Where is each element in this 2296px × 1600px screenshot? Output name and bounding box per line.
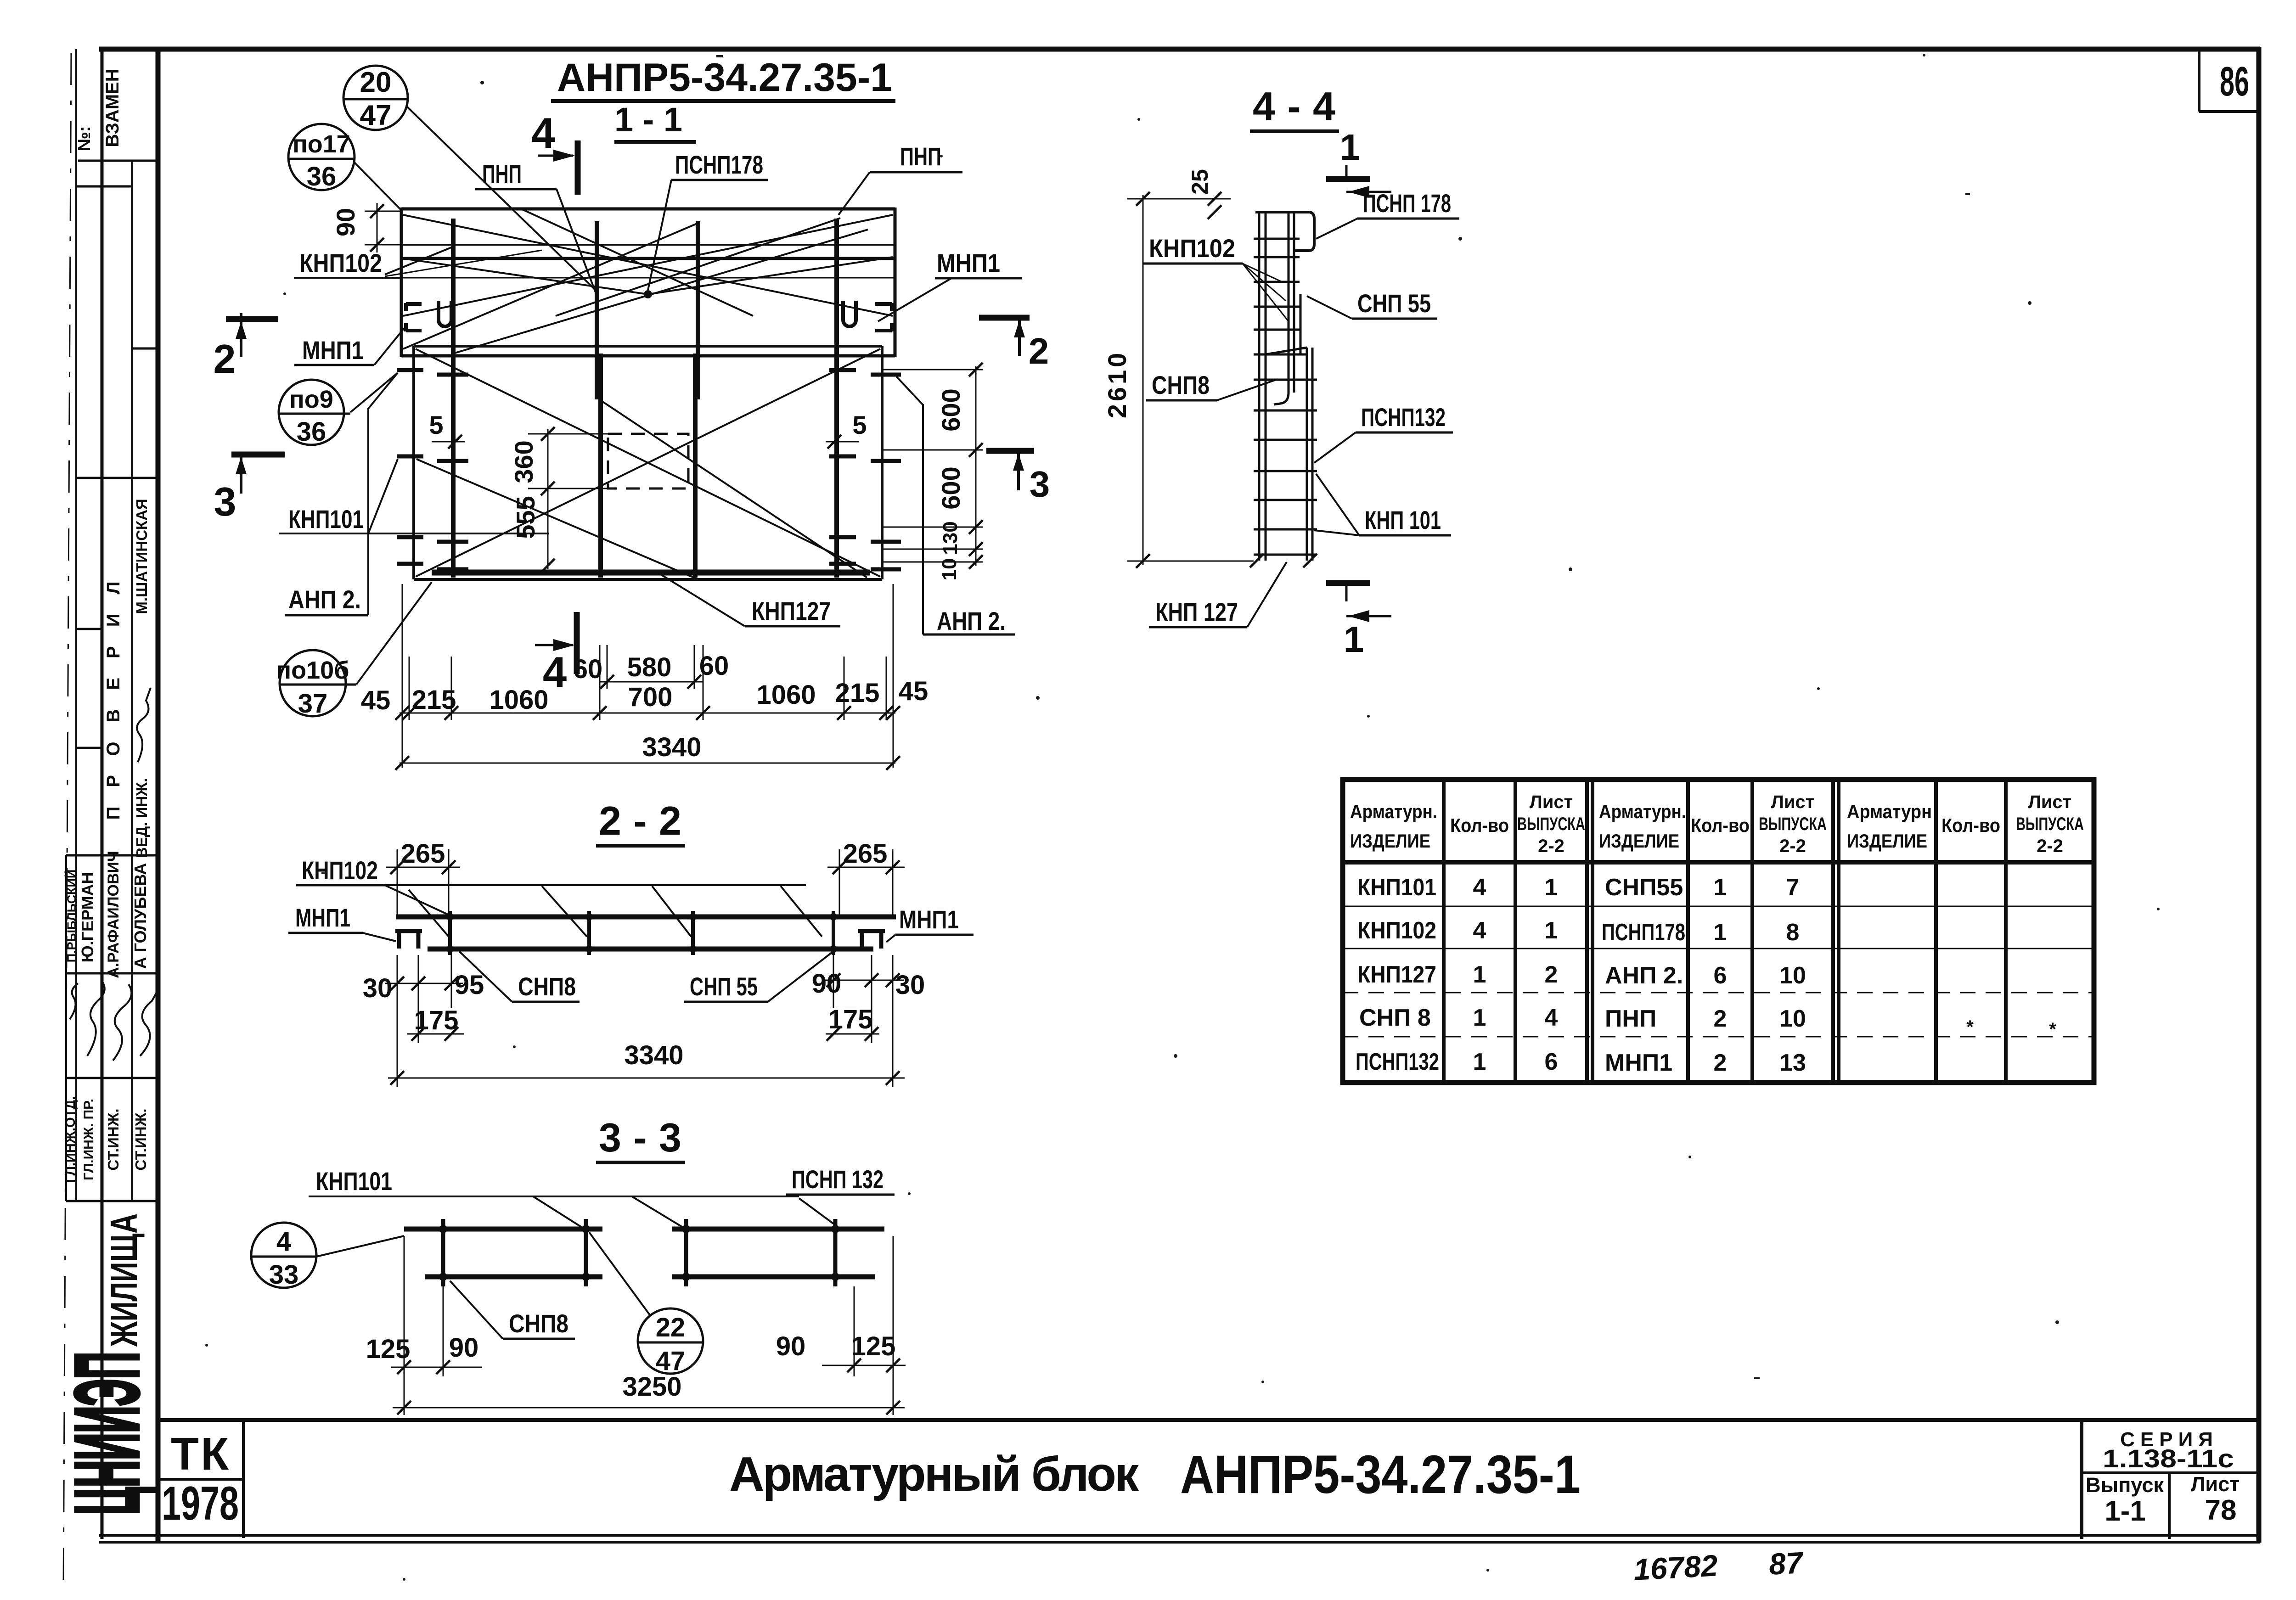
label КНП101 в 3-3 [309,1167,799,1228]
svg-text:Ю.ГЕРМАН: Ю.ГЕРМАН [78,872,97,962]
svg-text:СТ.ИНЖ.: СТ.ИНЖ. [132,1108,149,1170]
svg-text:Лист: Лист [1530,792,1573,812]
svg-text:2: 2 [214,336,236,382]
svg-text:175: 175 [414,1005,459,1035]
label МНП1 в 2-2 right [886,905,974,942]
svg-text:45: 45 [899,676,929,706]
svg-text:3340: 3340 [624,1040,683,1070]
svg-text:1: 1 [1473,961,1486,988]
svg-text:6: 6 [1545,1049,1558,1075]
svg-text:ИЗДЕЛИЕ: ИЗДЕЛИЕ [1599,830,1679,852]
svg-text:2: 2 [1545,961,1558,988]
section marker 3 right [986,451,1050,505]
U hook left [439,301,451,326]
2-2 joint dots [446,913,837,953]
svg-text:1: 1 [1714,919,1727,946]
callout по10б/37 [276,582,432,719]
svg-text:215: 215 [412,685,456,715]
svg-text:*: * [2049,1019,2056,1039]
svg-text:АНП 2.: АНП 2. [937,606,1006,635]
svg-text:4: 4 [1473,917,1486,944]
strip signatures block [70,981,158,1061]
opening dashed rect [608,434,688,488]
svg-text:1: 1 [1714,874,1727,901]
anchor dashes right [829,370,901,569]
svg-text:580: 580 [627,652,672,682]
svg-text:МНП1: МНП1 [302,336,364,365]
svg-text:СНП55: СНП55 [1605,874,1683,901]
label МНП1 left [294,328,404,365]
label КНП102 в 2-2 [296,856,450,915]
node dot ПСНП178 [644,290,652,298]
svg-text:СНП8: СНП8 [1152,371,1210,399]
svg-text:78: 78 [2205,1494,2237,1526]
svg-text:215: 215 [835,678,880,708]
label МНП1 right [878,248,1022,321]
svg-text:ВЗАМЕН: ВЗАМЕН [102,68,123,147]
dim 360 555 [509,427,611,573]
svg-text:45: 45 [361,685,391,715]
svg-text:ПСНП132: ПСНП132 [1361,403,1446,432]
svg-text:Арматурн.: Арматурн. [1599,801,1686,822]
label МНП1 в 2-2 left [288,903,396,941]
svg-text:МНП1: МНП1 [1605,1050,1672,1076]
svg-text:П.РЫБЛЬСКИЙ: П.РЫБЛЬСКИЙ [64,870,79,963]
label КНП127 в 4-4 [1149,562,1287,627]
dim 3340 в 2-2 [388,1040,905,1085]
svg-text:1-1: 1-1 [2105,1495,2146,1527]
TK 1978 box [158,1420,243,1538]
svg-text:ПСНП132: ПСНП132 [1356,1049,1439,1075]
svg-text:36: 36 [297,417,326,447]
svg-text:Лист: Лист [2191,1472,2240,1496]
svg-text:СНП8: СНП8 [509,1309,568,1338]
svg-text:1: 1 [1340,127,1361,168]
svg-text:№:: №: [75,126,94,151]
svg-text:130: 130 [939,521,962,555]
section marker 4 top [531,109,578,195]
svg-text:СНП 55: СНП 55 [690,972,758,1001]
svg-text:1: 1 [1473,1049,1486,1075]
svg-text:2-2: 2-2 [1779,836,1806,856]
dim 5 right [826,410,867,449]
svg-text:2610: 2610 [1103,350,1131,419]
svg-text:Кол-во: Кол-во [1691,814,1750,836]
2-2 top chord КНП102 [396,915,896,920]
2-2 thin top line [298,884,806,886]
paper fold line [63,53,71,1589]
svg-text:37: 37 [298,689,328,719]
label ПСНП178 top [648,150,768,290]
svg-text:по9: по9 [289,386,333,413]
svg-text:2: 2 [1714,1005,1727,1032]
2-2 hook МНП1 left [395,931,422,949]
svg-text:ВЕД. ИНЖ.: ВЕД. ИНЖ. [133,778,150,858]
svg-text:700: 700 [628,682,673,712]
svg-text:по10б: по10б [276,657,349,684]
svg-text:16782: 16782 [1632,1548,1718,1587]
svg-text:8: 8 [1786,919,1800,946]
callout 22/47 [589,1232,703,1376]
svg-text:125: 125 [366,1334,411,1364]
svg-text:Арматурн: Арматурн [1847,801,1932,822]
svg-text:ГЛ.ИНЖ. ПР.: ГЛ.ИНЖ. ПР. [81,1099,96,1180]
anchor dashes left [397,370,468,569]
ladder 4-4 flag ПСНП178 [1255,212,1314,251]
svg-text:600: 600 [936,388,965,431]
section marker 2 right [979,318,1049,371]
svg-text:90: 90 [812,969,842,999]
svg-text:1.138-11с: 1.138-11с [2103,1444,2234,1473]
svg-text:10: 10 [1779,1005,1806,1032]
svg-text:95: 95 [455,970,484,1000]
svg-text:360: 360 [509,440,538,483]
parts table grid [1343,780,2094,1083]
label СНП8 в 4-4 [1146,371,1277,400]
svg-text:60: 60 [699,651,729,681]
svg-text:25: 25 [1187,169,1213,195]
section marker 2 left [214,313,278,382]
svg-text:ПНП: ПНП [900,142,941,171]
svg-text:2: 2 [1029,331,1049,371]
seriya block grid [2082,1420,2259,1539]
dim 2610 [1103,192,1254,568]
svg-text:КНП101: КНП101 [288,505,364,533]
dashed bracket left [406,303,422,331]
svg-text:КНП 101: КНП 101 [1365,505,1441,534]
label СНП8 в 2-2 [459,951,580,1002]
vertical bar ПСНП right pair [696,221,700,399]
bottom frame double line [99,1535,2260,1542]
svg-text:КНП102: КНП102 [299,248,382,277]
svg-text:3: 3 [1030,464,1050,505]
section marker 4 bottom [535,612,577,696]
svg-text:КНП127: КНП127 [752,596,831,625]
svg-text:10: 10 [938,558,961,581]
svg-text:3-3: 3-3 [599,1115,681,1160]
svg-text:*: * [1966,1017,1974,1037]
svg-text:33: 33 [269,1260,299,1290]
svg-text:1060: 1060 [489,685,548,715]
label КНП127 [661,575,840,626]
page number box [2199,49,2259,112]
2-2 lower dims right [812,955,925,1087]
svg-text:265: 265 [401,839,445,869]
label ПСНП132 в 4-4 [1314,403,1453,463]
label ПНП right [838,142,962,215]
svg-text:Лист: Лист [1771,792,1815,812]
section marker 3 left [214,455,285,524]
svg-text:2-2: 2-2 [2037,836,2063,856]
svg-text:ЖИЛИЩА: ЖИЛИЩА [103,1213,145,1347]
2-2 hook МНП1 right [858,931,885,949]
svg-text:4: 4 [1545,1005,1558,1031]
label КНП101 left [279,505,549,533]
svg-text:4-4: 4-4 [1253,84,1335,129]
dim chain bottom of 1-1 [361,584,929,770]
svg-text:ИЗДЕЛИЕ: ИЗДЕЛИЕ [1350,830,1430,852]
svg-text:22: 22 [656,1313,686,1342]
svg-text:175: 175 [828,1005,873,1034]
svg-text:ПСНП178: ПСНП178 [675,150,763,179]
svg-text:Арматурн.: Арматурн. [1350,801,1437,822]
svg-text:1: 1 [1473,1005,1486,1031]
svg-text:90: 90 [331,208,360,236]
section marker 1 top [1326,127,1391,198]
2-2 verticals [450,911,833,955]
label КНП101 в 4-4 [1314,474,1451,535]
svg-text:6: 6 [1714,962,1727,989]
svg-text:СНП8: СНП8 [518,972,576,1001]
svg-text:ПСНП 132: ПСНП 132 [792,1165,884,1194]
svg-text:А.РАФАИЛОВИЧ: А.РАФАИЛОВИЧ [105,851,122,978]
dim 265 left [386,839,460,918]
svg-text:1060: 1060 [756,680,816,710]
2-2 diagonals [409,886,822,937]
svg-text:1: 1 [1344,619,1364,660]
svg-text:1: 1 [1545,917,1558,944]
svg-text:ИЗДЕЛИЕ: ИЗДЕЛИЕ [1847,830,1927,852]
svg-text:2-2: 2-2 [599,798,681,843]
svg-text:ГЛ.ИНЖ.ОТД.: ГЛ.ИНЖ.ОТД. [63,1096,78,1183]
svg-text:МНП1: МНП1 [937,248,1000,277]
svg-text:МНП1: МНП1 [295,903,350,932]
section marker 1 bottom [1326,583,1391,660]
svg-text:СТ.ИНЖ.: СТ.ИНЖ. [105,1108,122,1170]
svg-text:КНП101: КНП101 [316,1167,392,1196]
label АНП2 left [285,373,398,615]
dim 5 left [429,410,465,449]
svg-text:5: 5 [852,410,867,439]
2-2 bottom chord [428,947,873,952]
svg-text:36: 36 [307,162,337,191]
svg-text:ПНП: ПНП [482,159,522,188]
svg-text:90: 90 [776,1331,806,1361]
svg-text:АНПР5-34.27.35-1: АНПР5-34.27.35-1 [557,56,892,100]
svg-text:4: 4 [1473,874,1486,901]
svg-text:СНП 55: СНП 55 [1357,289,1431,318]
ladder bottom ticks [1250,554,1317,567]
bottom title bar top line [158,1418,2259,1422]
svg-text:87: 87 [1768,1545,1805,1581]
svg-text:20: 20 [360,67,392,98]
svg-text:А ГОЛУБЕВА: А ГОЛУБЕВА [131,863,150,969]
label АНП2 right [896,376,1015,635]
callout 20/47 [343,66,595,289]
svg-text:КНП102: КНП102 [1357,917,1436,944]
svg-text:4: 4 [531,109,555,157]
svg-text:ПНП: ПНП [1605,1005,1656,1032]
svg-text:86: 86 [2220,59,2249,105]
label ПСНП132 в 3-3 [786,1165,895,1227]
3-3 right group bars [672,1229,884,1277]
dim chain right 600 600 130 10 [882,363,983,580]
svg-text:555: 555 [511,496,540,539]
svg-text:ПСНП 178: ПСНП 178 [1363,189,1451,218]
svg-text:МНП1: МНП1 [899,905,959,934]
vertical bar ПНП right [834,219,839,578]
svg-text:30: 30 [895,970,925,1000]
svg-text:КНП102: КНП102 [1149,234,1235,263]
2-2 lower dims left [363,955,484,1087]
svg-text:Лист: Лист [2028,792,2072,812]
svg-text:60: 60 [573,654,603,684]
dim 25 [1187,169,1221,219]
svg-text:3250: 3250 [622,1372,681,1402]
svg-text:7: 7 [1786,874,1800,901]
svg-text:2: 2 [1714,1050,1727,1076]
svg-text:13: 13 [1779,1050,1806,1076]
U hook right [843,301,856,326]
3-3 dims [366,1236,906,1415]
label СНП55 в 2-2 [684,951,833,1002]
ladder 4-4 rails [1259,212,1312,561]
label СНП8 в 3-3 [450,1281,575,1339]
svg-text:ПРОВЕРИЛ: ПРОВЕРИЛ [103,562,124,820]
svg-text:АНПР5-34.27.35-1: АНПР5-34.27.35-1 [1180,1444,1581,1505]
svg-text:ВЫПУСКА: ВЫПУСКА [1759,814,1827,834]
callout по17/36 [288,124,401,210]
svg-text:Кол-во: Кол-во [1941,814,2000,836]
label СНП55 в 4-4 [1307,289,1437,319]
svg-text:ВЫПУСКА: ВЫПУСКА [1517,814,1585,834]
3-3 left group bars [404,1229,602,1277]
svg-text:3340: 3340 [642,732,701,762]
svg-text:ПСНП178: ПСНП178 [1602,919,1685,946]
lower panel diagonals [416,349,880,579]
svg-text:2-2: 2-2 [1538,836,1564,856]
callout 4/33 [251,1223,404,1290]
title strip verticals [66,47,132,1539]
svg-text:ТК: ТК [171,1428,231,1480]
label КНП102 в 4-4 [1143,234,1289,321]
svg-text:КНП101: КНП101 [1357,874,1436,901]
label ПНП left [475,159,597,296]
svg-text:4: 4 [276,1227,291,1257]
strip signature 1 [137,688,151,762]
ladder 4-4 rungs [1254,239,1317,555]
vertical bar ПСНП left pair [595,221,599,399]
svg-text:125: 125 [851,1331,896,1361]
upper slab outline [401,208,895,357]
svg-text:10: 10 [1779,962,1806,989]
svg-text:ВЫПУСКА: ВЫПУСКА [2016,814,2084,834]
dashed bracket right [875,303,892,331]
svg-text:600: 600 [936,466,965,509]
label КНП102 left [294,246,542,278]
svg-text:Кол-во: Кол-во [1450,814,1509,836]
svg-text:КНП 127: КНП 127 [1155,597,1238,626]
dim 90 left top [331,203,402,253]
upper slab diagonals [403,209,893,354]
svg-text:30: 30 [363,973,393,1003]
svg-text:47: 47 [360,100,392,131]
svg-text:АНП 2.: АНП 2. [288,585,361,614]
svg-text:1-1: 1-1 [614,101,682,139]
vertical bar ПНП left [451,219,456,578]
svg-text:КНП102: КНП102 [302,856,378,885]
svg-text:Выпуск: Выпуск [2086,1473,2164,1497]
svg-text:1: 1 [1545,874,1558,901]
svg-text:1978: 1978 [162,1477,239,1530]
svg-text:Арматурный блок: Арматурный блок [729,1447,1139,1501]
bar КНП127 bottom [432,570,870,576]
svg-text:СНП 8: СНП 8 [1359,1005,1431,1031]
lower panel outline [414,346,882,579]
svg-text:по17: по17 [293,130,350,158]
label ПСНП178 в 4-4 [1316,189,1459,239]
svg-text:М.ШАТИНСКАЯ: М.ШАТИНСКАЯ [133,499,150,614]
upper slab chord lines [296,245,895,278]
dim 265 right [827,839,905,918]
title strip dividers [66,161,158,1201]
svg-text:АНП 2.: АНП 2. [1605,962,1683,989]
callout по9/36 [279,373,398,447]
svg-text:90: 90 [449,1333,479,1363]
svg-text:5: 5 [429,410,443,439]
svg-text:265: 265 [843,839,888,869]
svg-text:КНП127: КНП127 [1357,961,1436,988]
svg-text:3: 3 [214,479,236,524]
svg-text:ЦНИИЭП: ЦНИИЭП [57,1352,157,1515]
